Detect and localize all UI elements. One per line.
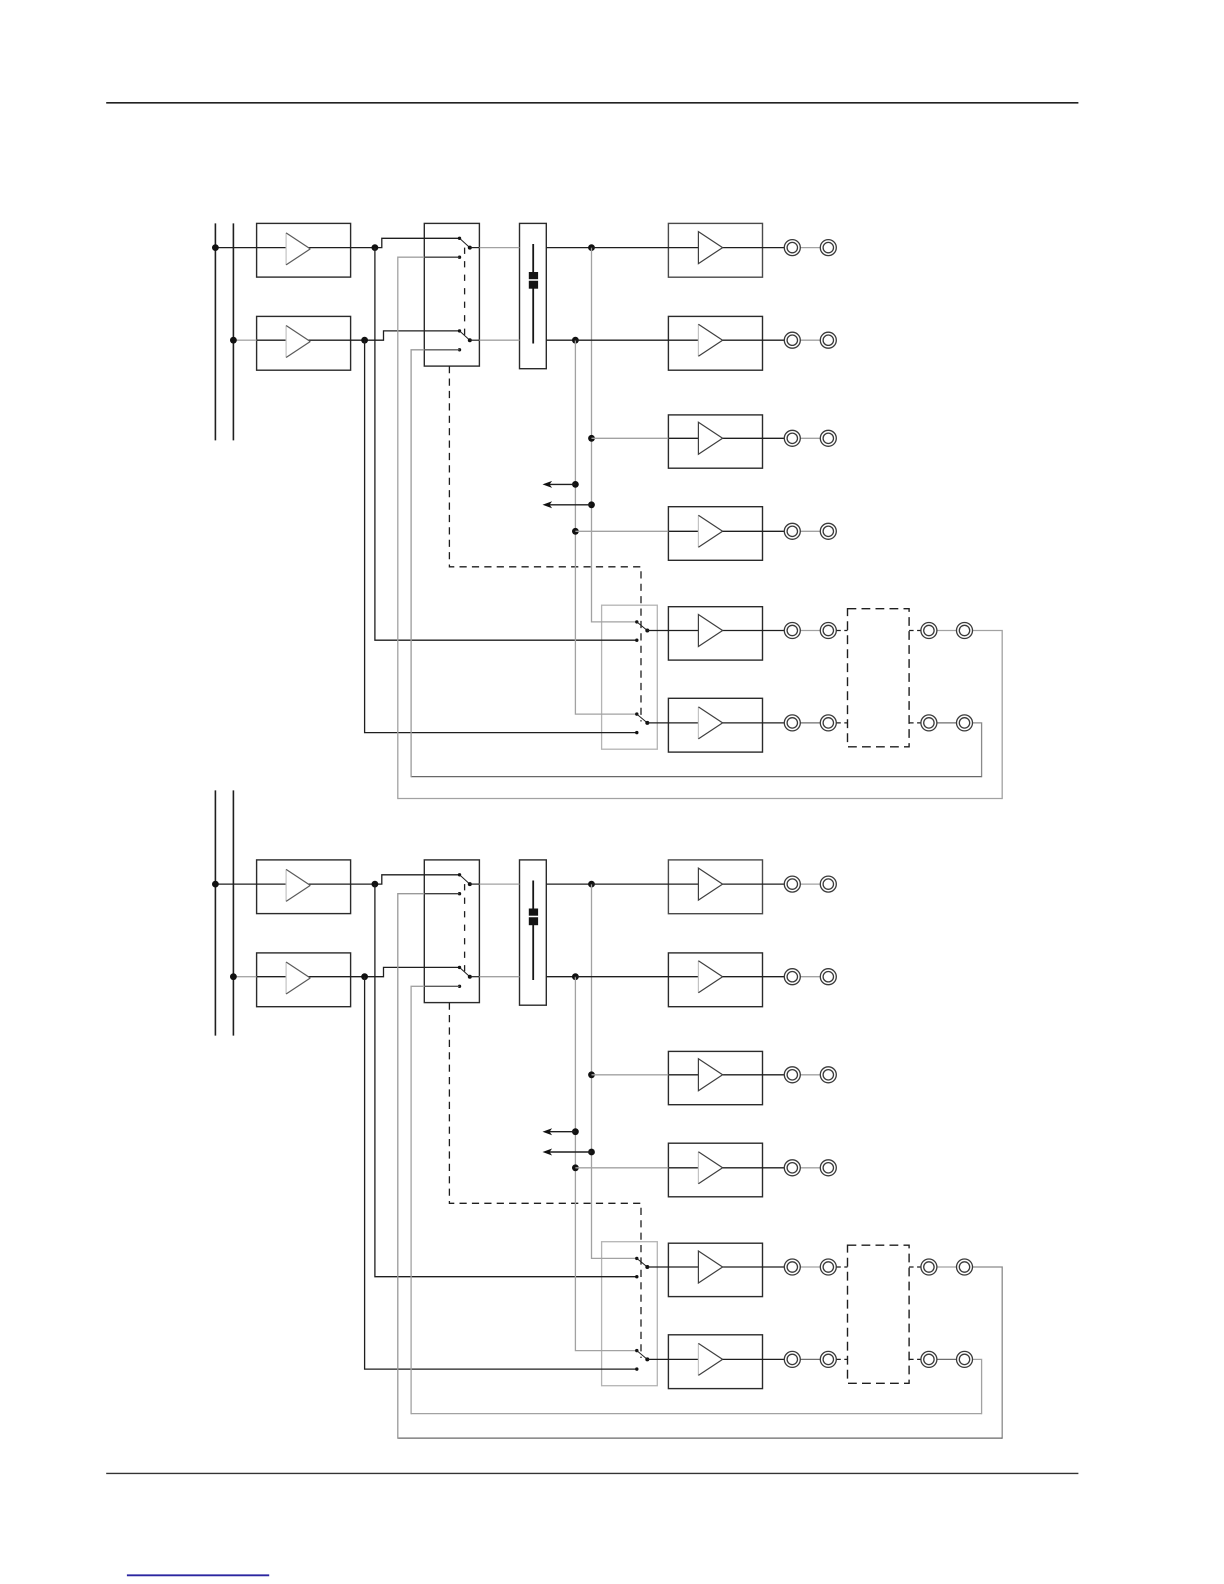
ch2 send switch 5 upper contact bbox=[635, 1257, 638, 1260]
ch1 pre/post switch box bbox=[424, 223, 479, 366]
ch2 bus junction B bbox=[230, 973, 237, 980]
ch1 return loop wire 5 right bbox=[973, 631, 1003, 800]
ch1 wire switch 1 to fader bbox=[470, 247, 480, 249]
ch1 amp 6 triangle bbox=[698, 707, 722, 739]
ch2 mix bus line 2 bbox=[232, 790, 234, 1035]
ch1 dashed wire from insert 6 bbox=[909, 722, 921, 724]
ch1 node send tap 1 bbox=[572, 481, 579, 488]
ch1 send switch box bbox=[602, 605, 658, 749]
ch2 wire jack pair 4 bbox=[800, 1167, 820, 1169]
ch2 switch 2 arm bbox=[460, 967, 470, 976]
ch2 send arrow wire 2 bbox=[548, 1151, 592, 1153]
ch2 amp 1 through wire bbox=[668, 883, 784, 885]
ch1 switch 1 arm bbox=[460, 238, 470, 247]
ch1 amp A through wire bbox=[257, 247, 375, 249]
ch2 jack 2a bbox=[784, 969, 800, 985]
ch2 dashed wire to insert 5 bbox=[836, 1266, 847, 1268]
ch1 return loop wire 6 bottom bbox=[411, 776, 982, 778]
ch2 output amp box 3 bbox=[668, 1051, 762, 1104]
ch1 send switch 6 lower contact bbox=[635, 731, 638, 734]
ch2 node amp A out bbox=[372, 881, 379, 888]
ch2 switch 2 lower contact bbox=[458, 985, 461, 988]
ch1 amp 6 through wire bbox=[668, 722, 784, 724]
ch1 amp B through wire bbox=[257, 339, 365, 341]
ch1 switch 2 common bbox=[468, 338, 472, 342]
ch2 wire to fader 1 bbox=[479, 883, 519, 885]
ch2 jack 1b bbox=[820, 876, 836, 892]
ch1 input amp box B bbox=[257, 316, 351, 370]
ch1 send arrow wire 1 bbox=[548, 483, 575, 485]
ch1 wire bus to amp B bbox=[233, 339, 256, 341]
ch1 return loop wire 6 left bbox=[411, 350, 424, 777]
ch2 wire fader 2 out bbox=[546, 976, 575, 978]
ch1 dashed wire from insert 5 bbox=[909, 630, 921, 632]
ch2 switch gang dashed link bbox=[464, 884, 466, 977]
ch1 fader knob bbox=[529, 272, 538, 289]
ch1 wire amp B out to send contact bbox=[365, 340, 637, 732]
ch1 node amp B out bbox=[361, 337, 368, 344]
ch1 insert return jack 5c bbox=[921, 623, 937, 639]
ch1 amp 3 through wire bbox=[668, 437, 784, 439]
ch1 jack 1b bbox=[820, 240, 836, 256]
ch1 insert return jack 5d bbox=[957, 623, 973, 639]
ch1 fader box bbox=[520, 223, 547, 368]
ch2 jack 6b bbox=[820, 1351, 836, 1367]
ch2 amp 3 triangle bbox=[698, 1059, 722, 1091]
ch2 send switch 5 lower contact bbox=[635, 1275, 638, 1278]
ch2 wire jack pair 6 bbox=[800, 1358, 820, 1360]
ch1 return loop wire 5 into switch bbox=[424, 256, 459, 258]
ch2 insert return jack 5d bbox=[957, 1259, 973, 1275]
ch2 wire amp A out to send contact bbox=[375, 884, 637, 1277]
ch1 return loop wire 5 bottom bbox=[398, 798, 1002, 800]
ch2 output amp box 4 bbox=[668, 1143, 762, 1197]
ch2 switch 1 common bbox=[468, 882, 472, 886]
ch2 amp 5 through wire bbox=[668, 1266, 784, 1268]
ch2 amp A triangle bbox=[286, 869, 310, 901]
ch2 amp B through wire bbox=[257, 976, 365, 978]
ch1 send arrow wire 2 bbox=[548, 504, 592, 506]
ch2 jack 4b bbox=[820, 1160, 836, 1176]
ch1 switch 1 upper contact bbox=[458, 237, 461, 240]
ch2 riser post-fader 2 bbox=[575, 977, 636, 1351]
ch2 node post-fader 2 bbox=[572, 973, 579, 980]
ch2 wire to output amp 3 bbox=[592, 1074, 669, 1076]
ch2 send switch 5 common bbox=[645, 1265, 649, 1269]
ch2 wire jack pair 2 bbox=[800, 976, 820, 978]
ch1 mix bus line 2 bbox=[232, 223, 234, 440]
ch1 amp 1 through wire bbox=[668, 247, 784, 249]
ch2 dashed wire from insert 5 bbox=[909, 1266, 921, 1268]
ch2 send switch 5 arm bbox=[637, 1258, 648, 1267]
ch2 riser post-fader 1 bbox=[592, 884, 637, 1258]
ch2 amp 6 triangle bbox=[698, 1343, 722, 1375]
ch1 amp 5 triangle bbox=[698, 615, 722, 647]
ch2 wire to output amp 1 bbox=[592, 883, 669, 885]
ch2 return loop wire 6 into switch bbox=[424, 985, 459, 987]
ch1 wire bus to amp A bbox=[215, 247, 256, 249]
ch2 amp 6 through wire bbox=[668, 1358, 784, 1360]
ch2 insert return jack 6d bbox=[957, 1351, 973, 1367]
ch2 return loop wire 5 right bbox=[973, 1267, 1003, 1439]
ch1 wire to fader 1 bbox=[479, 247, 519, 249]
ch2 wire return pair 5 bbox=[937, 1266, 957, 1268]
ch1 wire return pair 5 bbox=[937, 630, 957, 632]
ch1 amp B triangle bbox=[286, 326, 310, 358]
footnote blue underline bbox=[127, 1574, 269, 1576]
ch1 wire step to switch contact 2 bbox=[365, 331, 460, 340]
ch2 node tap 4 bbox=[572, 1164, 579, 1171]
ch1 amp 5 through wire bbox=[668, 630, 784, 632]
ch1 insert point dashed box bbox=[848, 609, 910, 747]
ch1 wire jack pair 5 bbox=[800, 630, 820, 632]
ch2 wire to fader 2 bbox=[479, 976, 519, 978]
ch1 wire to fader 2 bbox=[479, 339, 519, 341]
ch1 wire fader 2 out bbox=[546, 339, 575, 341]
ch2 send switch 6 lower contact bbox=[635, 1367, 638, 1370]
ch2 wire to output amp 2 bbox=[575, 976, 668, 978]
ch2 switch 1 upper contact bbox=[458, 873, 461, 876]
ch2 wire switch 1 to fader bbox=[470, 883, 480, 885]
ch1 switch 2 lower contact bbox=[458, 348, 461, 351]
ch2 return loop wire 6 bottom bbox=[411, 1413, 982, 1415]
ch1 jack 6a bbox=[784, 715, 800, 731]
ch1 send amp box 5 bbox=[668, 607, 762, 660]
ch1 riser post-fader 1 bbox=[592, 248, 637, 622]
ch2 wire step to switch contact 1 bbox=[375, 875, 460, 884]
ch1 wire jack pair 4 bbox=[800, 530, 820, 532]
ch2 amp 1 triangle bbox=[698, 868, 722, 900]
ch1 wire switch to send amp 5 bbox=[647, 630, 668, 632]
ch2 amp 2 triangle bbox=[698, 961, 722, 993]
ch2 gang dashed wire to send switch bbox=[449, 1003, 641, 1358]
ch2 jack 5b bbox=[820, 1259, 836, 1275]
ch1 send arrow head 2 bbox=[543, 501, 553, 508]
ch2 amp 2 through wire bbox=[668, 976, 784, 978]
ch1 send arrow head 1 bbox=[543, 481, 553, 488]
ch1 send switch 5 upper contact bbox=[635, 620, 638, 623]
ch2 return loop wire 6 right bbox=[973, 1359, 982, 1414]
ch1 amp 4 through wire bbox=[668, 530, 784, 532]
ch1 wire jack pair 2 bbox=[800, 339, 820, 341]
ch1 switch 2 arm bbox=[460, 331, 470, 340]
ch1 wire return pair 6 bbox=[937, 722, 957, 724]
ch2 dashed wire to insert 6 bbox=[836, 1358, 847, 1360]
ch2 node post-fader 1 bbox=[588, 881, 595, 888]
ch1 jack 3a bbox=[784, 430, 800, 446]
ch1 switch 1 common bbox=[468, 246, 472, 250]
ch2 node tap 3 bbox=[588, 1071, 595, 1078]
ch1 wire to output amp 2 bbox=[575, 339, 668, 341]
ch1 wire to output amp 4 bbox=[575, 530, 668, 532]
ch1 return loop wire 6 right bbox=[973, 723, 982, 777]
ch2 wire bus to amp B bbox=[233, 976, 256, 978]
ch2 node send tap 1 bbox=[572, 1128, 579, 1135]
ch1 jack 4a bbox=[784, 523, 800, 539]
ch2 wire switch to send amp 6 bbox=[647, 1358, 668, 1360]
ch2 return loop wire 6 left bbox=[411, 986, 424, 1414]
ch1 node post-fader 2 bbox=[572, 337, 579, 344]
ch1 mix bus line 1 bbox=[214, 223, 216, 440]
ch2 bus junction A bbox=[212, 881, 219, 888]
ch2 insert return jack 6c bbox=[921, 1351, 937, 1367]
ch2 send switch 6 common bbox=[645, 1357, 649, 1361]
ch1 send switch 5 common bbox=[645, 629, 649, 633]
ch1 jack 6b bbox=[820, 715, 836, 731]
ch2 return loop wire 5 bottom bbox=[398, 1437, 1002, 1439]
ch2 wire amp B out to send contact bbox=[365, 977, 637, 1369]
ch2 amp A through wire bbox=[257, 883, 375, 885]
ch2 input amp box A bbox=[257, 860, 351, 914]
ch2 send switch 6 upper contact bbox=[635, 1349, 638, 1352]
ch1 send switch 6 arm bbox=[637, 714, 648, 723]
ch1 wire to output amp 3 bbox=[592, 437, 669, 439]
ch1 jack 5b bbox=[820, 623, 836, 639]
ch1 amp 3 triangle bbox=[698, 422, 722, 454]
ch1 amp A triangle bbox=[286, 233, 310, 265]
ch1 insert return jack 6d bbox=[957, 715, 973, 731]
ch1 output amp box 1 bbox=[668, 223, 762, 277]
ch2 insert return jack 5c bbox=[921, 1259, 937, 1275]
ch2 fader slider track bbox=[532, 881, 534, 981]
ch1 send switch 5 lower contact bbox=[635, 639, 638, 642]
ch2 wire switch to send amp 5 bbox=[647, 1266, 668, 1268]
ch1 fader slider track bbox=[532, 244, 534, 344]
ch2 send arrow head 1 bbox=[543, 1128, 553, 1135]
ch1 send switch 5 arm bbox=[637, 622, 648, 631]
ch1 jack 2b bbox=[820, 332, 836, 348]
ch2 wire fader 1 out bbox=[546, 883, 591, 885]
ch2 jack 1a bbox=[784, 876, 800, 892]
top horizontal rule bbox=[106, 102, 1078, 104]
ch1 node send tap 2 bbox=[588, 501, 595, 508]
ch2 return loop wire 5 into switch bbox=[424, 893, 459, 895]
ch2 send amp box 5 bbox=[668, 1243, 762, 1296]
ch2 wire jack pair 5 bbox=[800, 1266, 820, 1268]
ch2 node amp B out bbox=[361, 973, 368, 980]
ch1 switch gang dashed link bbox=[464, 248, 466, 341]
ch1 jack 3b bbox=[820, 430, 836, 446]
ch2 send arrow head 2 bbox=[543, 1149, 553, 1156]
ch1 dashed wire to insert 6 bbox=[836, 722, 847, 724]
ch2 send arrow wire 1 bbox=[548, 1131, 575, 1133]
ch2 dashed wire from insert 6 bbox=[909, 1358, 921, 1360]
ch1 wire switch 2 to fader bbox=[470, 339, 480, 341]
ch1 dashed wire to insert 5 bbox=[836, 630, 847, 632]
ch2 wire jack pair 1 bbox=[800, 883, 820, 885]
ch1 input amp box A bbox=[257, 223, 351, 277]
ch2 jack 5a bbox=[784, 1259, 800, 1275]
ch1 amp 4 triangle bbox=[698, 515, 722, 547]
ch2 send amp box 6 bbox=[668, 1335, 762, 1389]
ch2 send switch 6 arm bbox=[637, 1351, 648, 1360]
ch1 node tap 3 bbox=[588, 435, 595, 442]
ch1 return loop wire 6 into switch bbox=[424, 349, 459, 351]
ch1 wire step to switch contact 1 bbox=[375, 238, 460, 247]
ch1 jack 4b bbox=[820, 523, 836, 539]
ch2 switch 2 upper contact bbox=[458, 966, 461, 969]
ch1 wire jack pair 1 bbox=[800, 247, 820, 249]
ch1 amp 1 triangle bbox=[698, 232, 722, 264]
ch2 wire return pair 6 bbox=[937, 1358, 957, 1360]
ch2 jack 2b bbox=[820, 969, 836, 985]
bottom horizontal rule bbox=[106, 1472, 1078, 1474]
ch1 gang dashed wire to send switch bbox=[449, 366, 641, 721]
ch2 return loop wire 5 left bbox=[398, 894, 425, 1439]
ch2 amp 4 through wire bbox=[668, 1167, 784, 1169]
ch2 switch 2 common bbox=[468, 975, 472, 979]
ch1 insert return jack 6c bbox=[921, 715, 937, 731]
ch1 output amp box 2 bbox=[668, 316, 762, 370]
ch1 switch 1 lower contact bbox=[458, 256, 461, 259]
ch2 amp 4 triangle bbox=[698, 1152, 722, 1184]
ch2 send switch box bbox=[602, 1242, 658, 1386]
ch2 output amp box 2 bbox=[668, 953, 762, 1007]
ch1 wire to output amp 1 bbox=[592, 247, 669, 249]
ch2 fader knob bbox=[529, 909, 538, 926]
ch2 fader box bbox=[520, 860, 547, 1005]
ch2 wire jack pair 3 bbox=[800, 1074, 820, 1076]
ch2 wire bus to amp A bbox=[215, 883, 256, 885]
ch1 output amp box 4 bbox=[668, 507, 762, 561]
ch2 amp 3 through wire bbox=[668, 1074, 784, 1076]
ch2 jack 4a bbox=[784, 1160, 800, 1176]
ch2 switch 1 arm bbox=[460, 875, 470, 884]
ch1 wire jack pair 6 bbox=[800, 722, 820, 724]
ch2 wire to output amp 4 bbox=[575, 1167, 668, 1169]
ch1 output amp box 3 bbox=[668, 415, 762, 468]
ch1 wire jack pair 3 bbox=[800, 437, 820, 439]
ch1 node amp A out bbox=[372, 244, 379, 251]
ch1 amp 2 triangle bbox=[698, 324, 722, 356]
ch1 send amp box 6 bbox=[668, 698, 762, 752]
ch1 jack 2a bbox=[784, 332, 800, 348]
ch1 bus junction A bbox=[212, 244, 219, 251]
ch2 node send tap 2 bbox=[588, 1149, 595, 1156]
ch2 output amp box 1 bbox=[668, 860, 762, 914]
ch1 amp 2 through wire bbox=[668, 339, 784, 341]
ch1 node tap 4 bbox=[572, 528, 579, 535]
ch2 jack 6a bbox=[784, 1351, 800, 1367]
ch1 jack 5a bbox=[784, 623, 800, 639]
ch1 return loop wire 5 left bbox=[398, 257, 425, 799]
ch1 send switch 6 common bbox=[645, 721, 649, 725]
ch1 wire switch to send amp 6 bbox=[647, 722, 668, 724]
ch1 wire amp A out to send contact bbox=[375, 248, 637, 641]
ch1 node post-fader 1 bbox=[588, 244, 595, 251]
ch1 switch 2 upper contact bbox=[458, 329, 461, 332]
ch2 jack 3b bbox=[820, 1067, 836, 1083]
ch2 jack 3a bbox=[784, 1067, 800, 1083]
ch1 jack 1a bbox=[784, 240, 800, 256]
ch2 wire switch 2 to fader bbox=[470, 976, 480, 978]
ch1 bus junction B bbox=[230, 337, 237, 344]
ch1 riser post-fader 2 bbox=[575, 340, 636, 714]
ch2 switch 1 lower contact bbox=[458, 892, 461, 895]
ch2 wire step to switch contact 2 bbox=[365, 967, 460, 976]
ch2 input amp box B bbox=[257, 953, 351, 1007]
ch2 amp B triangle bbox=[286, 962, 310, 994]
ch2 insert point dashed box bbox=[848, 1245, 910, 1383]
ch2 mix bus line 1 bbox=[214, 790, 216, 1035]
ch1 send switch 6 upper contact bbox=[635, 712, 638, 715]
ch1 wire fader 1 out bbox=[546, 247, 591, 249]
ch2 amp 5 triangle bbox=[698, 1251, 722, 1283]
ch2 pre/post switch box bbox=[424, 860, 479, 1003]
